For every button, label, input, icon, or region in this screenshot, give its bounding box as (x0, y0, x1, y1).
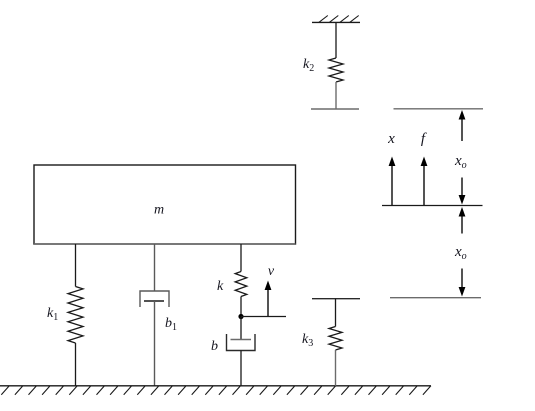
ceiling hatching (319, 16, 359, 23)
dimension arrow down to line C (459, 269, 466, 297)
damper b1 cylinder (140, 291, 169, 307)
svg-text:k: k (217, 279, 224, 294)
damper b piston (231, 339, 252, 341)
spring k (235, 272, 247, 297)
wire spring k2 to plate (335, 82, 337, 109)
ground line (0, 385, 431, 387)
wire mass to damper b1 (154, 244, 156, 291)
svg-text:k1: k1 (47, 306, 58, 323)
wire spring k3 to ground (335, 350, 337, 386)
wire mass to spring k (240, 244, 242, 272)
dimension arrow up to line A (459, 110, 466, 141)
reference line C lower right (390, 297, 481, 299)
svg-text:m: m (154, 203, 164, 218)
wire mass to spring k1 (75, 244, 77, 287)
spring k3 (329, 327, 342, 351)
svg-text:xo: xo (454, 153, 467, 171)
wire spring k to node (240, 297, 242, 317)
svg-text:k2: k2 (303, 57, 314, 74)
reference line B middle right (382, 205, 483, 207)
wire damper b to ground (240, 351, 242, 386)
wire ceiling to spring k2 (335, 22, 337, 58)
spring k1 (68, 287, 83, 344)
svg-text:b: b (211, 339, 218, 354)
damper b1 piston (144, 300, 164, 302)
ceiling support line (312, 21, 360, 23)
arrow f (421, 157, 428, 206)
arrow x (389, 157, 396, 206)
wire node to right (241, 316, 286, 318)
damper b cylinder (227, 334, 256, 351)
svg-text:b1: b1 (165, 316, 177, 333)
svg-text:x: x (387, 131, 395, 147)
mass m rectangle (34, 165, 296, 244)
spring k2 (329, 58, 343, 82)
ground hatching (1, 386, 431, 395)
svg-text:f: f (421, 131, 427, 147)
wire spring k1 to ground (75, 343, 77, 386)
wire damper b1 to ground (154, 301, 156, 386)
dimension arrow down to line B (459, 178, 466, 205)
reference line A top right (394, 108, 484, 110)
wire plate to spring k3 (335, 299, 337, 327)
svg-text:v: v (268, 264, 275, 279)
node junction dot (238, 314, 243, 319)
arrow v (265, 281, 272, 317)
plate above spring k3 (312, 298, 360, 300)
svg-text:xo: xo (454, 244, 467, 262)
dimension arrow up below line B (459, 207, 466, 234)
svg-text:k3: k3 (302, 332, 313, 349)
wire node to damper b piston (240, 317, 242, 340)
plate under k2 (311, 108, 359, 110)
